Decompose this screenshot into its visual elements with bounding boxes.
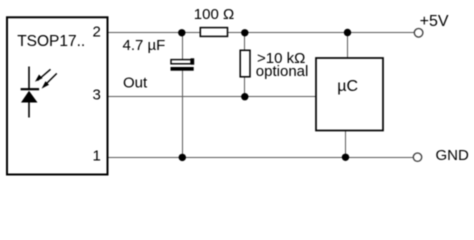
svg-text:1: 1 — [92, 147, 100, 164]
svg-text:+5V: +5V — [420, 13, 449, 30]
svg-text:µC: µC — [337, 78, 358, 95]
svg-text:optional: optional — [256, 63, 309, 80]
svg-text:GND: GND — [436, 147, 470, 164]
svg-text:Out: Out — [123, 75, 148, 92]
svg-text:100 Ω: 100 Ω — [194, 6, 234, 23]
svg-text:2: 2 — [92, 23, 100, 40]
svg-text:4.7 µF: 4.7 µF — [123, 37, 166, 54]
svg-text:3: 3 — [92, 86, 100, 103]
svg-text:TSOP17..: TSOP17.. — [17, 33, 85, 50]
